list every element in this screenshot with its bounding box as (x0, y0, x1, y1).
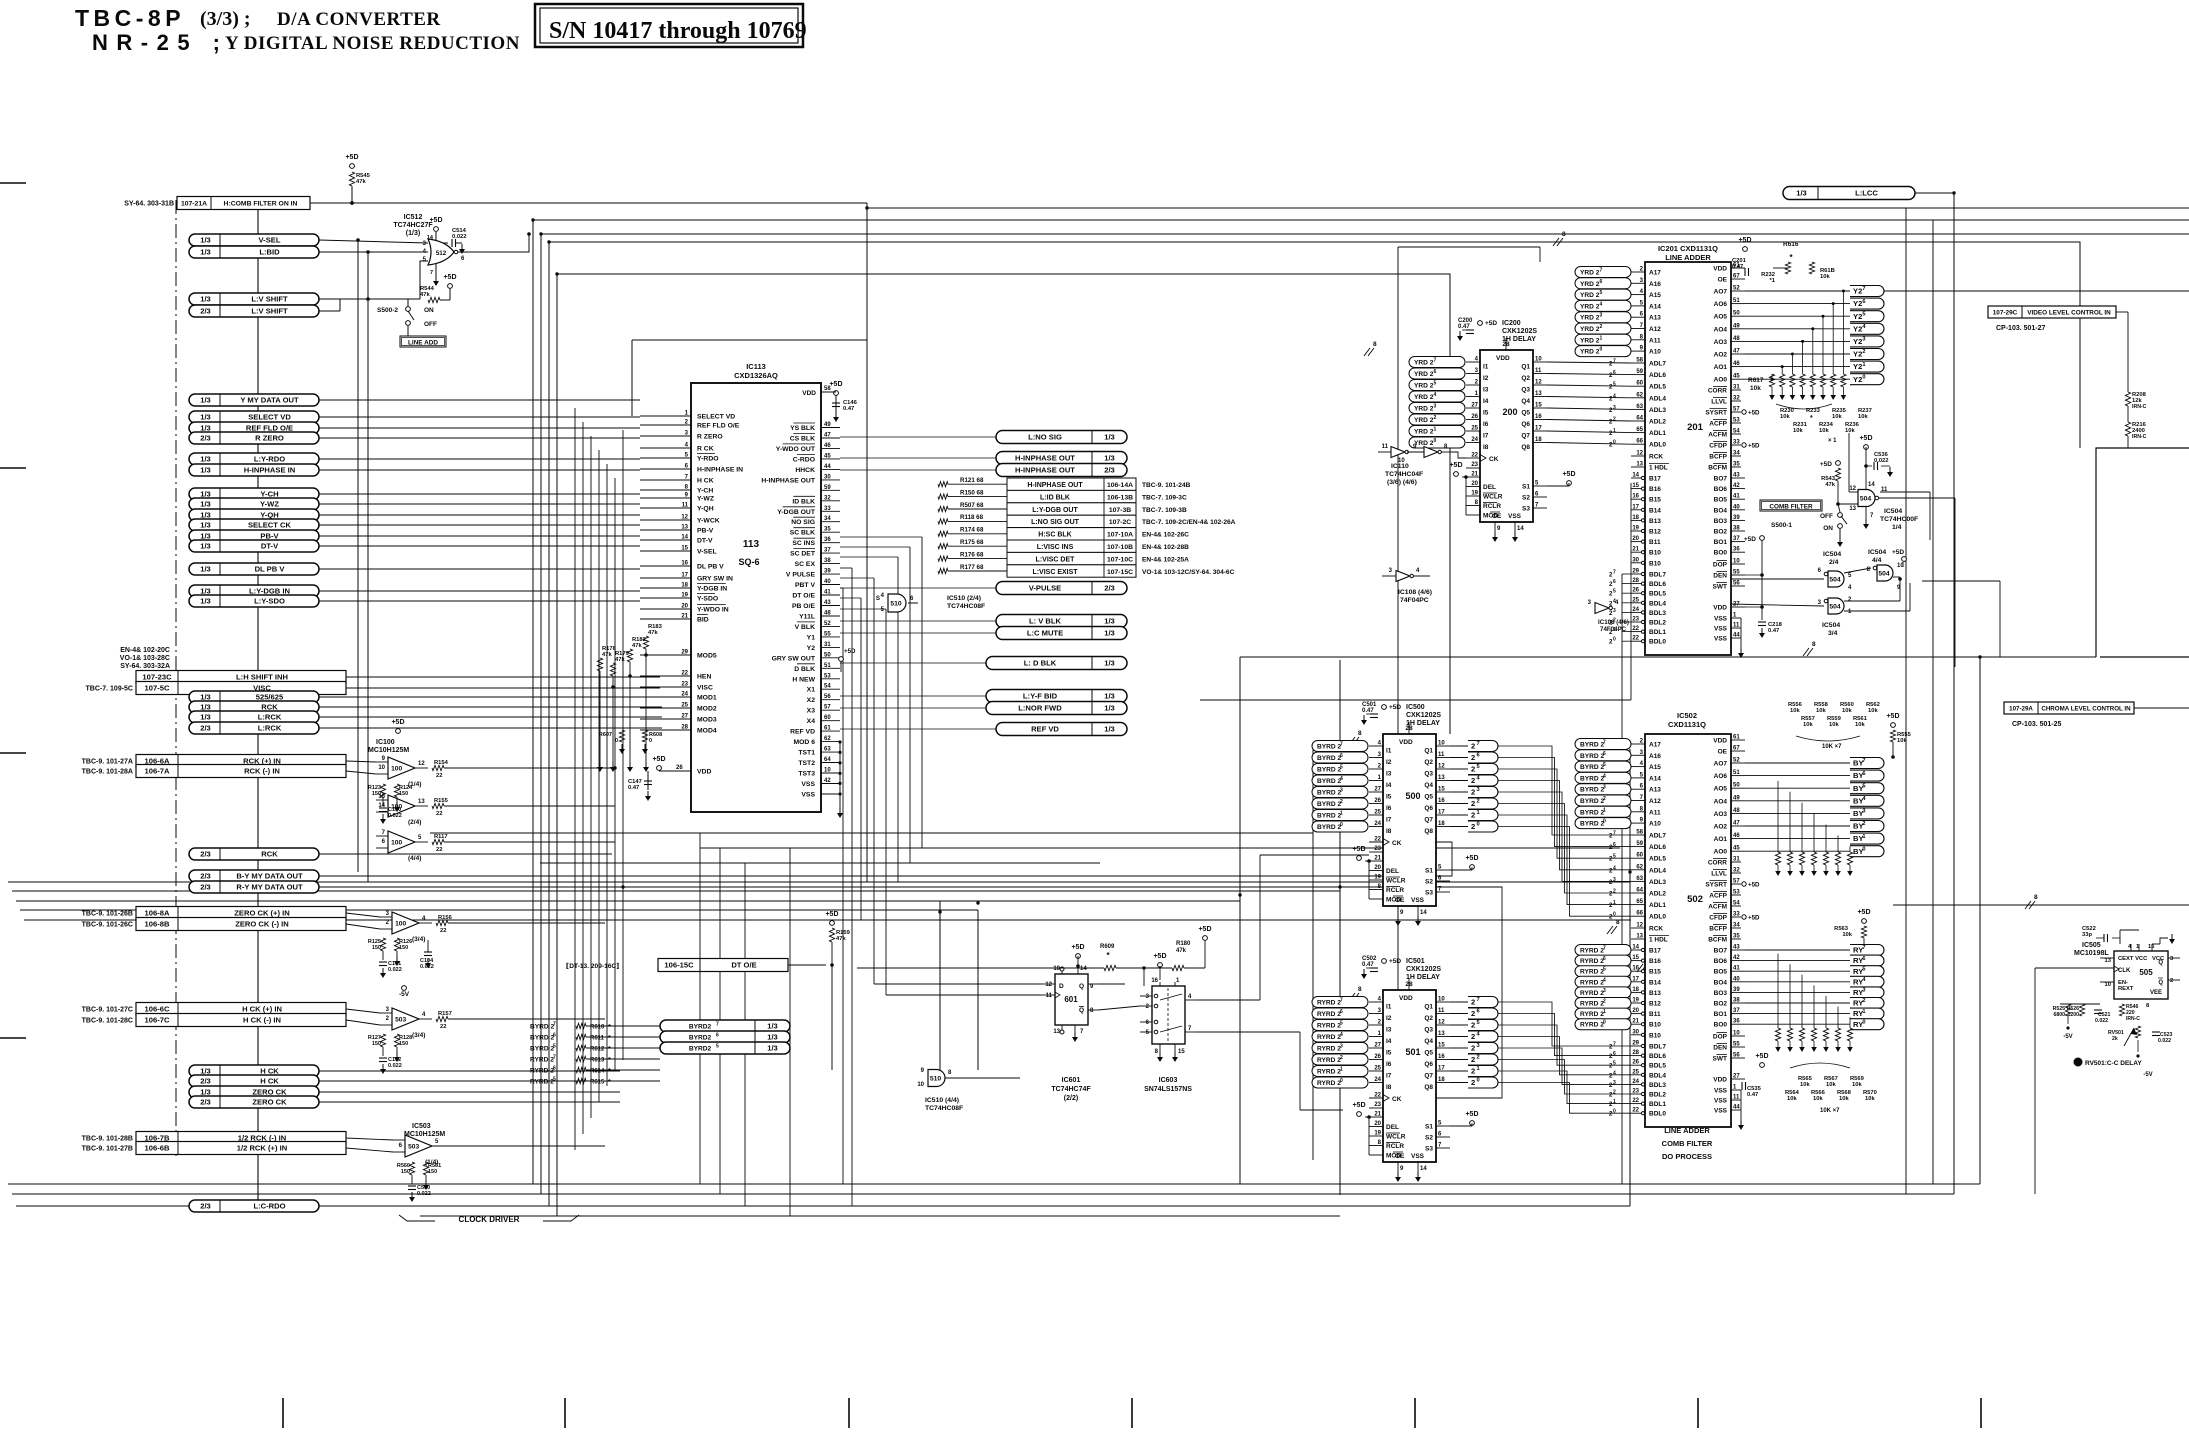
svg-text:COMB FILTER: COMB FILTER (1769, 504, 1813, 511)
svg-text:43: 43 (1733, 473, 1740, 479)
svg-text:1/3: 1/3 (767, 1022, 778, 1031)
svg-text:V PULSE: V PULSE (786, 572, 816, 579)
svg-text:106-6C: 106-6C (145, 1005, 170, 1014)
svg-text:RYRD 2: RYRD 2 (1580, 1011, 1604, 1018)
svg-text:4: 4 (1600, 301, 1603, 307)
svg-text:0: 0 (1603, 1020, 1606, 1026)
svg-text:TBC-9. 101-27A: TBC-9. 101-27A (82, 759, 133, 766)
svg-text:2: 2 (1471, 765, 1475, 774)
svg-text:22: 22 (681, 671, 688, 677)
svg-text:16: 16 (1632, 494, 1639, 500)
svg-text:35: 35 (1733, 462, 1740, 468)
svg-text:20: 20 (681, 604, 688, 610)
svg-text:1/3: 1/3 (200, 466, 211, 475)
svg-text:X4: X4 (807, 718, 816, 725)
svg-text:Q: Q (1079, 983, 1084, 990)
svg-text:ACFM: ACFM (1708, 904, 1727, 911)
svg-text:BO2: BO2 (1714, 529, 1728, 536)
svg-text:44: 44 (1733, 633, 1740, 639)
svg-text:23: 23 (681, 682, 688, 688)
svg-text:10k: 10k (1845, 428, 1855, 434)
svg-text:4: 4 (1340, 776, 1343, 782)
svg-text:22: 22 (436, 811, 442, 817)
svg-text:LINE ADDER: LINE ADDER (1665, 253, 1711, 262)
svg-text:7: 7 (1340, 742, 1343, 748)
svg-text:BO3: BO3 (1714, 518, 1728, 525)
svg-text:(3/3) ;: (3/3) ; (200, 8, 251, 30)
svg-text:29: 29 (681, 650, 688, 656)
svg-text:18: 18 (1438, 1077, 1445, 1083)
svg-text:31: 31 (824, 642, 831, 648)
svg-text:+5D: +5D (1748, 443, 1760, 450)
svg-text:ADL2: ADL2 (1649, 419, 1666, 426)
svg-text:A13: A13 (1649, 315, 1661, 322)
svg-text:4: 4 (1434, 392, 1437, 398)
svg-text:39: 39 (1733, 515, 1740, 521)
svg-text:*: * (608, 1046, 611, 1053)
svg-text:AO0: AO0 (1714, 377, 1728, 384)
svg-text:RYRD 2: RYRD 2 (530, 1079, 554, 1086)
svg-text:I6: I6 (1483, 421, 1489, 428)
svg-text:+5D: +5D (1755, 1053, 1768, 1060)
svg-text:Q5: Q5 (1424, 794, 1433, 801)
svg-text:BYRD 2: BYRD 2 (1580, 787, 1605, 794)
svg-text:2: 2 (1613, 417, 1616, 423)
svg-text:18: 18 (1438, 821, 1445, 827)
svg-text:0: 0 (649, 738, 652, 744)
svg-text:TC74HC27F: TC74HC27F (393, 222, 433, 229)
svg-text:13: 13 (1438, 1031, 1445, 1037)
svg-text:6: 6 (1613, 1051, 1616, 1057)
svg-text:1 HDL: 1 HDL (1649, 465, 1668, 472)
svg-text:DT O/E: DT O/E (792, 593, 815, 600)
svg-text:10k: 10k (1832, 414, 1842, 420)
svg-text:H CK (-) IN: H CK (-) IN (243, 1016, 281, 1025)
svg-text:+5D: +5D (1389, 704, 1401, 711)
svg-text:23: 23 (1632, 617, 1639, 623)
svg-text:R615: R615 (590, 1080, 605, 1086)
svg-text:11: 11 (1881, 487, 1888, 493)
svg-text:2/3: 2/3 (200, 434, 211, 443)
svg-text:12: 12 (1438, 1020, 1445, 1026)
svg-text:R174 68: R174 68 (960, 527, 984, 534)
svg-text:RCK: RCK (261, 850, 278, 859)
svg-text:0: 0 (1613, 1109, 1616, 1115)
svg-text:BO6: BO6 (1714, 958, 1728, 965)
svg-text:H-INPHASE IN: H-INPHASE IN (697, 467, 743, 474)
svg-text:36: 36 (1733, 1019, 1740, 1025)
svg-text:Q8: Q8 (1521, 444, 1530, 451)
svg-text:I1: I1 (1483, 364, 1489, 371)
svg-text:62: 62 (1636, 864, 1643, 870)
svg-text:ZERO CK (+) IN: ZERO CK (+) IN (234, 909, 289, 918)
svg-text:45: 45 (1733, 374, 1740, 380)
svg-text:32: 32 (1733, 396, 1740, 402)
svg-text:OE: OE (1395, 1153, 1405, 1160)
svg-text:BO7: BO7 (1714, 476, 1728, 483)
svg-text:A12: A12 (1649, 798, 1661, 805)
svg-text:31: 31 (1733, 385, 1740, 391)
svg-text:2/3: 2/3 (1104, 466, 1115, 475)
svg-text:(1/3): (1/3) (406, 230, 420, 237)
svg-text:0.47: 0.47 (1362, 962, 1374, 968)
svg-text:DEN: DEN (1713, 1045, 1727, 1052)
svg-text:15: 15 (1632, 955, 1639, 961)
svg-text:MOD4: MOD4 (697, 728, 717, 735)
svg-text:21: 21 (681, 614, 688, 620)
svg-text:11: 11 (1382, 444, 1389, 450)
svg-text:19: 19 (1374, 1131, 1381, 1137)
svg-text:B12: B12 (1649, 1001, 1661, 1008)
svg-text:VSS: VSS (1714, 626, 1728, 633)
svg-text:2: 2 (1471, 1067, 1475, 1076)
svg-text:26: 26 (1632, 1060, 1639, 1066)
svg-text:47: 47 (1733, 349, 1740, 355)
svg-text:A14: A14 (1649, 303, 1661, 310)
svg-text:100: 100 (391, 839, 402, 846)
svg-text:R117: R117 (434, 834, 448, 840)
svg-text:107-10A: 107-10A (1107, 532, 1133, 539)
svg-text:17: 17 (1438, 1066, 1445, 1072)
svg-text:2: 2 (1471, 1078, 1475, 1087)
svg-text:13: 13 (1636, 934, 1643, 940)
svg-text:BDL5: BDL5 (1649, 591, 1666, 598)
svg-text:CK: CK (1392, 840, 1402, 847)
svg-text:1: 1 (1613, 900, 1616, 906)
svg-text:201: 201 (1687, 422, 1704, 433)
svg-text:60: 60 (1636, 381, 1643, 387)
svg-text:5: 5 (1340, 765, 1343, 771)
svg-text:HEN: HEN (697, 674, 711, 681)
svg-text:I3: I3 (1386, 771, 1392, 778)
svg-text:SC EX: SC EX (795, 561, 816, 568)
svg-text:I2: I2 (1386, 1015, 1392, 1022)
svg-text:52: 52 (1733, 286, 1740, 292)
svg-text:DT-V: DT-V (261, 542, 279, 551)
svg-text:I4: I4 (1386, 782, 1392, 789)
svg-text:CXD1131Q: CXD1131Q (1668, 720, 1706, 729)
svg-text:17: 17 (681, 573, 688, 579)
svg-text:51: 51 (1733, 298, 1740, 304)
svg-text:R616: R616 (1783, 241, 1799, 248)
svg-text:2: 2 (1862, 349, 1865, 355)
svg-text:RCK: RCK (1649, 926, 1663, 933)
svg-text:R CK: R CK (697, 446, 714, 453)
svg-text:15: 15 (681, 546, 688, 552)
svg-text:3: 3 (1862, 337, 1865, 343)
svg-text:(3/6) (4/6): (3/6) (4/6) (1387, 479, 1417, 486)
svg-text:TBC-9. 101-26C: TBC-9. 101-26C (82, 922, 133, 929)
svg-text:BYRD 2: BYRD 2 (1317, 790, 1342, 797)
svg-text:H CK: H CK (260, 1077, 279, 1086)
svg-text:28: 28 (1632, 1050, 1639, 1056)
svg-text:BO5: BO5 (1714, 969, 1728, 976)
svg-text:1 HDL: 1 HDL (1649, 937, 1668, 944)
svg-text:Q2: Q2 (1424, 1015, 1433, 1022)
svg-text:14: 14 (1632, 945, 1639, 951)
svg-text:Q1: Q1 (1521, 364, 1530, 371)
svg-text:30: 30 (1632, 1029, 1639, 1035)
svg-text:YS BLK: YS BLK (790, 425, 815, 432)
svg-text:19: 19 (681, 593, 688, 599)
svg-text:Q8: Q8 (1424, 828, 1433, 835)
svg-text:47k: 47k (648, 630, 658, 636)
svg-text:504: 504 (1878, 571, 1890, 578)
svg-text:Q7: Q7 (1521, 433, 1530, 440)
svg-text:A15: A15 (1649, 292, 1661, 299)
svg-text:1/3: 1/3 (200, 500, 211, 509)
svg-text:57: 57 (1733, 879, 1740, 885)
svg-text:B16: B16 (1649, 486, 1661, 493)
svg-text:RYRD 2: RYRD 2 (1317, 1057, 1341, 1064)
svg-text:1200: 1200 (2067, 1012, 2079, 1018)
svg-text:X1: X1 (807, 687, 816, 694)
svg-text:IC510 (2/4): IC510 (2/4) (947, 595, 981, 602)
svg-text:107-29C: 107-29C (1993, 310, 2018, 317)
svg-text:49: 49 (824, 422, 831, 428)
svg-text:106-7A: 106-7A (145, 767, 170, 776)
svg-text:24: 24 (1471, 437, 1478, 443)
svg-text:13: 13 (681, 525, 688, 531)
svg-text:RYRD 2: RYRD 2 (1580, 958, 1604, 965)
svg-text:1/3: 1/3 (200, 295, 211, 304)
svg-text:22: 22 (440, 928, 446, 934)
svg-text:AO5: AO5 (1714, 314, 1728, 321)
svg-text:50: 50 (1733, 311, 1740, 317)
svg-text:46: 46 (1733, 833, 1740, 839)
svg-text:503: 503 (395, 1016, 406, 1023)
svg-text:ZERO CK: ZERO CK (252, 1098, 287, 1107)
svg-text:65: 65 (1636, 899, 1643, 905)
svg-text:0: 0 (1340, 822, 1343, 828)
svg-text:RCLR: RCLR (1483, 503, 1501, 510)
svg-text:64: 64 (1636, 416, 1643, 422)
svg-text:13: 13 (1438, 775, 1445, 781)
svg-text:107-21A: 107-21A (181, 201, 207, 208)
svg-text:7: 7 (553, 1055, 556, 1061)
svg-text:A11: A11 (1649, 337, 1661, 344)
svg-text:1/3: 1/3 (1104, 433, 1115, 442)
svg-text:24: 24 (1374, 821, 1381, 827)
svg-text:ON: ON (1823, 525, 1833, 532)
svg-text:1: 1 (1603, 807, 1606, 813)
svg-text:MC10198L: MC10198L (2074, 950, 2109, 957)
svg-text:IC505: IC505 (2082, 942, 2101, 949)
svg-text:IC500: IC500 (1406, 704, 1425, 711)
svg-text:Q4: Q4 (1424, 1038, 1433, 1045)
svg-text:ADL1: ADL1 (1649, 430, 1666, 437)
svg-text:I2: I2 (1386, 759, 1392, 766)
svg-text:A14: A14 (1649, 775, 1661, 782)
svg-text:OFF: OFF (424, 321, 437, 328)
svg-text:CXK1202S: CXK1202S (1406, 966, 1441, 973)
svg-text:66: 66 (1636, 439, 1643, 445)
svg-text:ZERO CK (-) IN: ZERO CK (-) IN (235, 920, 289, 929)
svg-text:5: 5 (1862, 966, 1865, 972)
svg-text:500: 500 (1405, 791, 1420, 801)
svg-text:0.47: 0.47 (1768, 628, 1779, 634)
svg-text:22: 22 (1632, 1108, 1639, 1114)
svg-text:BYRD 2: BYRD 2 (530, 1035, 555, 1042)
svg-text:B15: B15 (1649, 969, 1661, 976)
svg-text:0.47: 0.47 (628, 785, 639, 791)
svg-text:VDD: VDD (802, 390, 816, 397)
svg-text:MOD3: MOD3 (697, 717, 717, 724)
svg-text:V-PULSE: V-PULSE (1029, 584, 1062, 593)
svg-text:17: 17 (1535, 426, 1542, 432)
svg-text:10k: 10k (1820, 274, 1830, 280)
svg-text:47: 47 (824, 433, 831, 439)
svg-text:54: 54 (1733, 429, 1740, 435)
svg-text:BYRD2: BYRD2 (689, 1035, 712, 1042)
svg-text:44: 44 (1733, 1105, 1740, 1111)
svg-text:RYRD 2: RYRD 2 (530, 1057, 554, 1064)
svg-text:64: 64 (1636, 888, 1643, 894)
svg-text:40: 40 (824, 579, 831, 585)
svg-text:106-15C: 106-15C (664, 961, 694, 970)
svg-text:8: 8 (1616, 919, 1620, 926)
svg-text:107-3B: 107-3B (1109, 507, 1131, 514)
svg-text:Y2: Y2 (1853, 350, 1862, 359)
svg-text:B14: B14 (1649, 979, 1661, 986)
svg-text:2: 2 (1471, 799, 1475, 808)
svg-text:+5D: +5D (391, 719, 404, 726)
svg-text:30: 30 (824, 474, 831, 480)
svg-text:2: 2 (1471, 1055, 1475, 1064)
svg-text:L:LCC: L:LCC (1855, 189, 1878, 198)
svg-text:B13: B13 (1649, 990, 1661, 997)
svg-text:59: 59 (1636, 369, 1643, 375)
svg-text:27: 27 (1733, 1074, 1740, 1080)
svg-text:RYRD 2: RYRD 2 (1317, 1000, 1341, 1007)
svg-text:33: 33 (824, 506, 831, 512)
svg-text:PBT V: PBT V (795, 582, 815, 589)
svg-text:49: 49 (1733, 323, 1740, 329)
svg-text:2: 2 (1471, 776, 1475, 785)
svg-text:5: 5 (1613, 589, 1616, 595)
svg-text:VSS: VSS (1714, 616, 1728, 623)
svg-text:Y-WDO OUT: Y-WDO OUT (776, 446, 816, 453)
svg-text:DOP: DOP (1713, 1034, 1728, 1041)
svg-text:150: 150 (372, 791, 381, 797)
svg-text:CHROMA LEVEL CONTROL IN: CHROMA LEVEL CONTROL IN (2041, 706, 2131, 713)
svg-text:58: 58 (1636, 358, 1643, 364)
svg-text:8: 8 (1562, 231, 1566, 238)
svg-text:34: 34 (1733, 451, 1740, 457)
svg-text:6: 6 (1862, 771, 1865, 777)
svg-text:I7: I7 (1386, 817, 1392, 824)
svg-text:28: 28 (1632, 578, 1639, 584)
svg-text:D/A CONVERTER: D/A CONVERTER (277, 9, 441, 30)
svg-text:5: 5 (1862, 783, 1865, 789)
svg-text:GRY SW IN: GRY SW IN (697, 576, 733, 583)
svg-text:1: 1 (1862, 362, 1865, 368)
svg-text:SY-64. 303-31B: SY-64. 303-31B (124, 201, 174, 208)
svg-text:11: 11 (1535, 368, 1542, 374)
svg-text:S1: S1 (1522, 484, 1530, 491)
svg-text:R157: R157 (438, 1011, 452, 1017)
svg-text:H-INPHASE OUT: H-INPHASE OUT (1027, 482, 1083, 489)
svg-text:3: 3 (1613, 608, 1616, 614)
svg-text:I8: I8 (1483, 444, 1489, 451)
svg-text:10k: 10k (1826, 1082, 1836, 1088)
svg-text:20: 20 (1471, 481, 1478, 487)
svg-text:17: 17 (1632, 504, 1639, 510)
svg-text:BYRD 2: BYRD 2 (1580, 809, 1605, 816)
svg-text:Y-QH: Y-QH (697, 506, 714, 513)
svg-text:42: 42 (824, 778, 831, 784)
svg-text:67: 67 (1733, 746, 1740, 752)
svg-text:SY-64. 303-32A: SY-64. 303-32A (120, 663, 170, 670)
svg-text:57: 57 (824, 705, 831, 711)
svg-text:IC501: IC501 (1406, 958, 1425, 965)
svg-text:IC201 CXD1131Q: IC201 CXD1131Q (1658, 244, 1718, 253)
svg-text:34: 34 (1733, 923, 1740, 929)
svg-text:B11: B11 (1649, 539, 1661, 546)
svg-text:24: 24 (1632, 1079, 1639, 1085)
svg-text:100: 100 (395, 920, 406, 927)
svg-text:S: S (876, 595, 880, 602)
svg-text:VSS: VSS (1411, 897, 1425, 904)
svg-text:59: 59 (824, 485, 831, 491)
svg-text:0.022: 0.022 (452, 234, 467, 240)
svg-text:6: 6 (1613, 842, 1616, 848)
svg-text:24: 24 (1374, 1077, 1381, 1083)
svg-text:L:NOR FWD: L:NOR FWD (1018, 704, 1062, 713)
svg-text:3: 3 (1613, 877, 1616, 883)
svg-text:CEXT VCC: CEXT VCC (2118, 956, 2148, 962)
svg-text:27: 27 (1471, 403, 1478, 409)
svg-text:7: 7 (1476, 997, 1479, 1003)
svg-text:6: 6 (553, 1066, 556, 1072)
svg-text:IC100: IC100 (376, 739, 395, 746)
svg-text:CFDP: CFDP (1709, 915, 1727, 922)
svg-text:5: 5 (1476, 764, 1479, 770)
svg-text:0: 0 (1600, 347, 1603, 353)
svg-text:BO5: BO5 (1714, 497, 1728, 504)
svg-text:24: 24 (681, 692, 688, 698)
svg-text:H:COMB FILTER ON IN: H:COMB FILTER ON IN (224, 201, 298, 208)
svg-text:5: 5 (1476, 1020, 1479, 1026)
svg-text:L:Y-SDO: L:Y-SDO (254, 597, 285, 606)
svg-text:60: 60 (1636, 853, 1643, 859)
svg-text:41: 41 (824, 590, 831, 596)
svg-text:1/3: 1/3 (200, 597, 211, 606)
svg-text:I7: I7 (1483, 433, 1489, 440)
svg-text:21: 21 (1632, 1019, 1639, 1025)
svg-text:Y-WZ: Y-WZ (260, 500, 279, 509)
svg-text:TST2: TST2 (798, 760, 815, 767)
svg-text:1/4: 1/4 (1892, 524, 1902, 531)
svg-text:6: 6 (716, 1033, 719, 1039)
svg-text:AO7: AO7 (1714, 761, 1728, 768)
svg-text:BYRD 2: BYRD 2 (1317, 744, 1342, 751)
svg-text:DEL: DEL (1386, 868, 1399, 875)
svg-text:2/3: 2/3 (200, 724, 211, 733)
svg-text:16: 16 (1438, 798, 1445, 804)
svg-text:TBC-7. 109-3B: TBC-7. 109-3B (1142, 507, 1187, 514)
svg-text:HHCK: HHCK (795, 467, 815, 474)
svg-text:0.47: 0.47 (843, 406, 854, 412)
svg-text:I7: I7 (1386, 1073, 1392, 1080)
svg-text:IC200: IC200 (1502, 320, 1521, 327)
svg-text:25: 25 (1374, 810, 1381, 816)
svg-text:7: 7 (430, 270, 433, 276)
svg-text:IC108 (4/6): IC108 (4/6) (1598, 619, 1629, 626)
svg-text:CP-103. 501-27: CP-103. 501-27 (1996, 325, 2046, 332)
svg-text:22: 22 (440, 1024, 446, 1030)
svg-text:Q3: Q3 (1424, 771, 1433, 778)
